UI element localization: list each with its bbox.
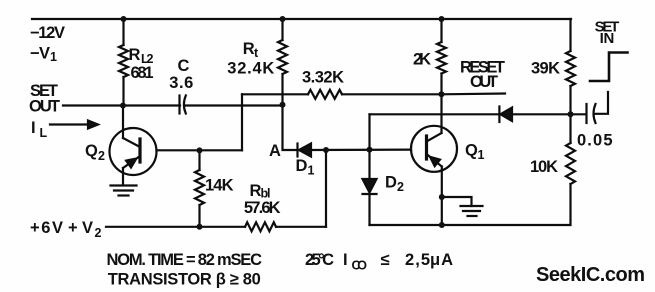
wire 39K to 10K through node <box>569 86 571 143</box>
svg-text:R: R <box>129 46 141 64</box>
svg-text:D: D <box>296 157 308 175</box>
node dot Q1 emitter / ground stub <box>439 194 445 200</box>
svg-text:R: R <box>243 40 255 58</box>
resistor 3.32K <box>308 90 342 99</box>
svg-text:10K: 10K <box>530 158 558 176</box>
svg-text:Q: Q <box>465 142 478 160</box>
resistor 2K <box>440 19 442 42</box>
svg-text:+V: +V <box>68 219 93 237</box>
capacitor 0.05 plates <box>585 104 587 123</box>
wire cap C to Rt node <box>185 104 283 106</box>
wire diode line from D2 riser to steering diode <box>370 113 500 115</box>
svg-text:IN: IN <box>600 30 615 47</box>
wire 3.32K line left segment <box>242 93 308 95</box>
svg-text:μA: μA <box>430 251 453 269</box>
ground (Q1 emitter) <box>461 205 483 207</box>
ground (Q2 emitter) <box>111 184 137 186</box>
wire SET OUT lead <box>63 104 180 106</box>
node dot D2 riser / base line <box>367 147 373 153</box>
wire 3.32K to 2K node <box>342 93 442 95</box>
svg-text:14K: 14K <box>205 177 234 195</box>
resistor 10K <box>566 143 575 184</box>
svg-text:L: L <box>40 126 48 140</box>
svg-text:CO: CO <box>352 259 368 273</box>
wire Rt node down to node A <box>283 105 298 150</box>
wire D1 to Q1 base <box>311 149 411 152</box>
svg-text:2K: 2K <box>413 51 431 69</box>
svg-text:OUT: OUT <box>29 98 60 116</box>
wire steering diode to 39K/10K node <box>512 113 586 115</box>
svg-text:0.05: 0.05 <box>577 132 613 150</box>
capacitor C plates <box>178 96 180 114</box>
diode D1 <box>296 144 298 157</box>
wire D2 riser upper part <box>368 114 370 178</box>
wire riser Rbl rail to D1 line <box>325 150 327 227</box>
svg-text:3.32K: 3.32K <box>302 69 344 87</box>
wire RESET OUT lead <box>442 92 506 95</box>
resistor Rt 32.4K <box>281 19 283 40</box>
node dot SET OUT / RL2 / Q2 collector <box>120 103 126 109</box>
svg-text:+6V: +6V <box>30 219 63 237</box>
wire Q2 base line <box>157 149 243 151</box>
resistor RL2 681 <box>122 19 124 45</box>
svg-text:1: 1 <box>308 164 315 178</box>
svg-text:25°C: 25°C <box>305 251 334 269</box>
resistor 39K <box>566 51 575 86</box>
node dot Rt bottom <box>280 102 286 108</box>
wire 10K bottom to ground rail corner <box>370 184 571 225</box>
svg-text:I: I <box>31 119 36 137</box>
step waveform SET IN <box>590 53 628 82</box>
svg-text:t: t <box>254 46 259 60</box>
node dot top rail Rt <box>280 16 286 22</box>
svg-text:681: 681 <box>131 64 154 82</box>
svg-text:C: C <box>178 57 190 75</box>
wire Q1 collector lead <box>440 94 442 133</box>
wire Q2 emitter to ground <box>122 168 124 184</box>
resistor Rbl 57.6K <box>245 222 276 231</box>
svg-text:39K: 39K <box>531 60 560 78</box>
node dot 14K bottom rail <box>197 224 203 230</box>
transistor Q1 <box>411 126 457 172</box>
svg-text:TRANSISTOR β ≥ 80: TRANSISTOR β ≥ 80 <box>108 271 261 289</box>
wire Q1 emitter down <box>441 167 443 226</box>
resistor 14K <box>198 150 200 170</box>
svg-text:2: 2 <box>95 226 102 240</box>
svg-text:57.6K: 57.6K <box>244 199 281 217</box>
arrow IL <box>50 123 89 125</box>
wire +6V rail right segment <box>276 226 326 228</box>
wire 3.32K feedback line left corner <box>241 94 243 150</box>
node dot Q2 base / 14K <box>197 147 203 153</box>
node dot top rail 2K <box>439 16 445 22</box>
svg-text:−V: −V <box>30 45 50 63</box>
node dot top rail RL2 <box>121 16 127 22</box>
transistor Q2 <box>110 128 157 175</box>
svg-text:I: I <box>343 251 348 269</box>
svg-text:2,5: 2,5 <box>405 251 430 269</box>
svg-text:≤: ≤ <box>381 251 390 269</box>
svg-text:A: A <box>269 142 281 160</box>
node dot Q1 emitter / ground rail <box>439 222 445 228</box>
node dot 2K bottom / 3.32K / reset out <box>439 91 445 97</box>
diode steering (unlabeled) <box>498 107 500 123</box>
svg-text:2: 2 <box>397 180 404 194</box>
wire top supply rail <box>32 18 571 20</box>
svg-text:NOM. TIME = 82 mSEC: NOM. TIME = 82 mSEC <box>107 251 263 269</box>
svg-text:OUT: OUT <box>470 73 498 91</box>
node dot Rbl riser / D1 line <box>323 147 329 153</box>
svg-text:2: 2 <box>98 149 105 163</box>
svg-text:−12V: −12V <box>30 24 65 42</box>
svg-text:Q: Q <box>85 142 98 160</box>
wire ground stub Q1 <box>442 197 472 206</box>
wire +6V rail left segment <box>106 226 245 228</box>
svg-text:3.6: 3.6 <box>169 74 193 92</box>
diode D2 <box>363 179 377 193</box>
svg-text:32.4K: 32.4K <box>227 59 274 77</box>
wire D2 riser top corner from diode line <box>368 195 370 225</box>
svg-text:D: D <box>385 174 397 192</box>
svg-text:SeekIC.com: SeekIC.com <box>536 264 645 286</box>
svg-text:1: 1 <box>478 148 485 162</box>
node dot 39K/10K/cap <box>568 111 574 117</box>
wire cap to set-in stub <box>595 92 609 114</box>
svg-text:1: 1 <box>50 50 57 64</box>
wire right branch upper lead (top rail to 39K) <box>569 19 571 51</box>
